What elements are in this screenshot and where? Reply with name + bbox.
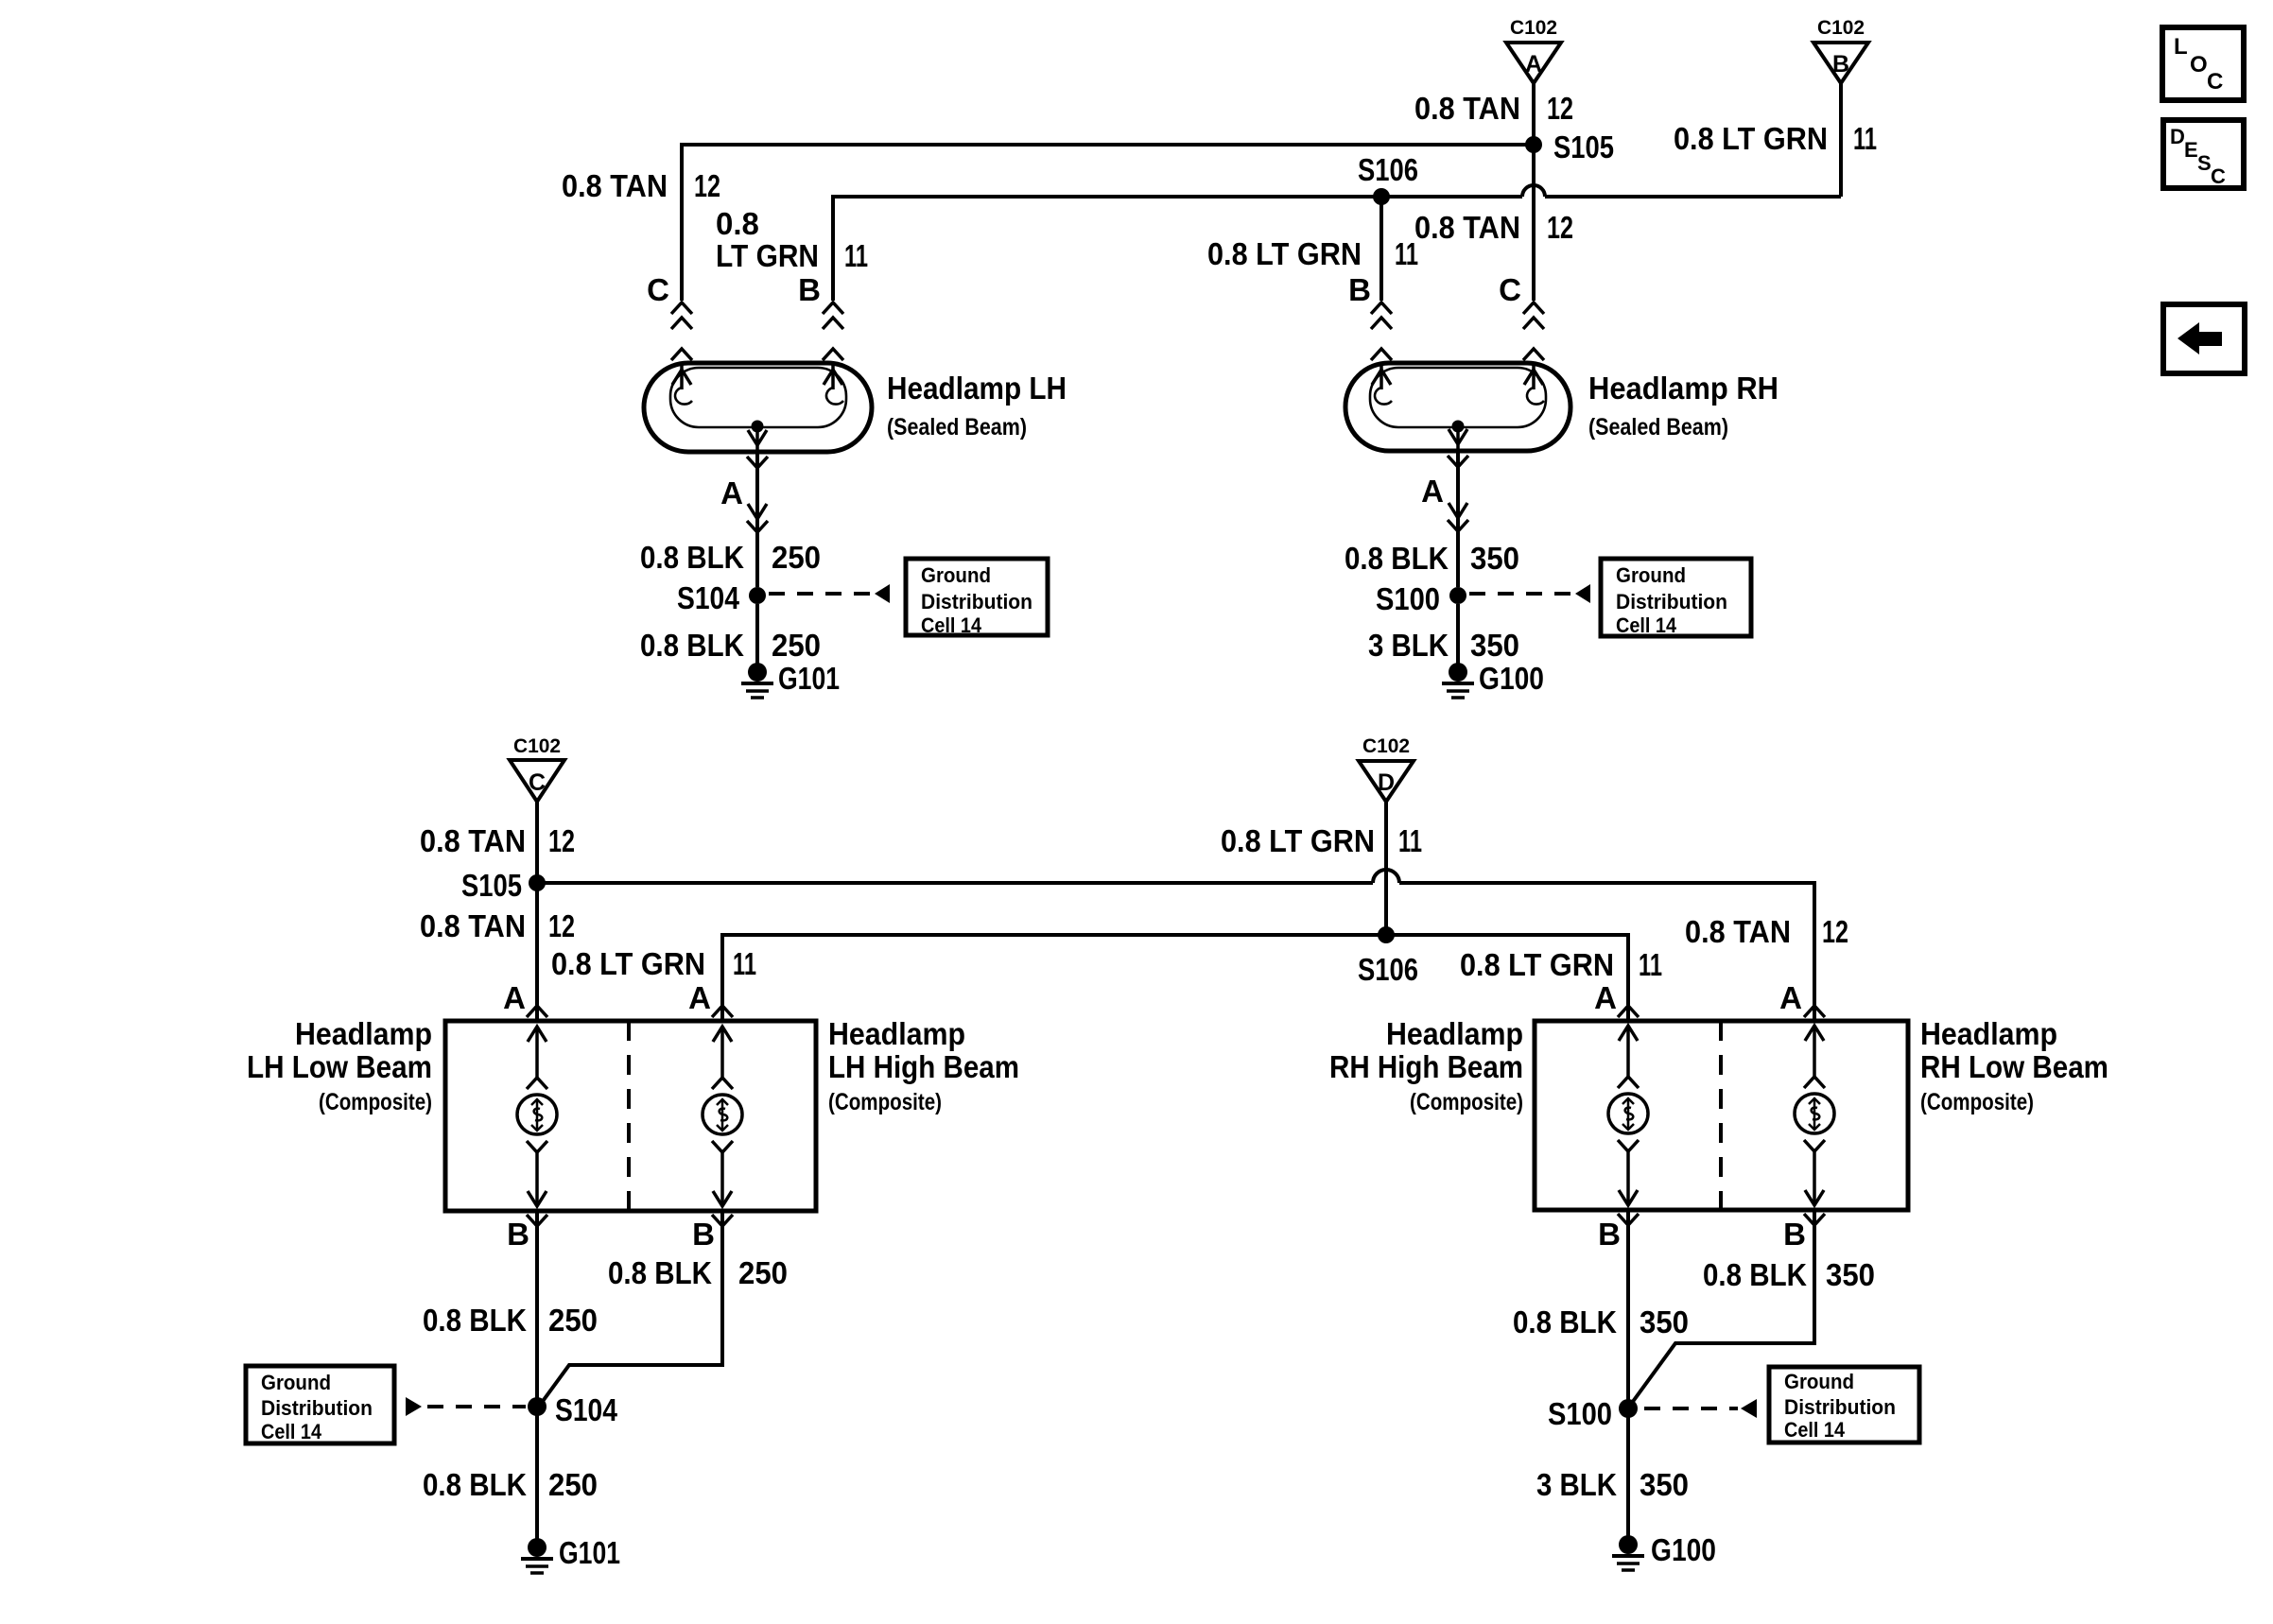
svg-text:C: C (1499, 272, 1521, 307)
svg-text:350: 350 (1640, 1467, 1689, 1502)
svg-text:250: 250 (738, 1255, 788, 1290)
wire C102-A to S105 (1532, 83, 1536, 145)
splice S105 (bottom section) (461, 868, 546, 903)
svg-text:RH High Beam: RH High Beam (1329, 1049, 1523, 1084)
svg-text:Headlamp: Headlamp (1920, 1016, 2057, 1051)
svg-text:S105: S105 (1553, 130, 1614, 164)
chevron below box RH high beam (1618, 1214, 1639, 1225)
svg-text:12: 12 (694, 168, 720, 203)
svg-text:11: 11 (733, 946, 756, 981)
svg-text:0.8 TAN: 0.8 TAN (420, 908, 526, 943)
label 0.8 / LT GRN 11 (LH pin B wire) (716, 206, 868, 273)
svg-text:11: 11 (1639, 947, 1662, 982)
svg-text:12: 12 (548, 823, 575, 858)
svg-text:S104: S104 (677, 580, 740, 615)
svg-text:C102: C102 (1362, 735, 1410, 757)
ground distribution cell 14 box (bottom right) (1769, 1367, 1919, 1443)
label 0.8 LT GRN 11 (wire D) (1221, 823, 1422, 858)
svg-text:350: 350 (1826, 1257, 1875, 1292)
connector chevron LH high beam pin A (712, 1006, 733, 1017)
back arrow box (2163, 304, 2245, 373)
svg-text:0.8 LT GRN: 0.8 LT GRN (1460, 947, 1614, 982)
svg-text:0.8 BLK: 0.8 BLK (608, 1255, 712, 1290)
label 0.8 TAN 12 (LH branch) (562, 168, 720, 203)
svg-text:(Sealed Beam): (Sealed Beam) (887, 414, 1027, 441)
svg-text:3 BLK: 3 BLK (1536, 1467, 1617, 1502)
svg-text:12: 12 (1547, 91, 1573, 126)
headlamp RH composite divider (1719, 1021, 1723, 1210)
connector chevrons LH pin C (671, 302, 692, 360)
svg-text:0.8 BLK: 0.8 BLK (423, 1467, 527, 1502)
wire S104 to G101 (755, 604, 759, 665)
svg-text:0.8 TAN: 0.8 TAN (1414, 210, 1520, 245)
wire LH high beam B to S104 (541, 1211, 722, 1404)
connector chevron RH low beam pin A (1804, 1006, 1825, 1017)
svg-text:Distribution: Distribution (261, 1396, 373, 1420)
ground G100 (top section) (1442, 661, 1544, 698)
headlamp LH inner element (670, 368, 846, 427)
label 0.8 LT GRN 11 (wire B) (1674, 121, 1877, 156)
svg-text:0.8 LT GRN: 0.8 LT GRN (551, 946, 705, 981)
svg-text:S105: S105 (461, 868, 522, 903)
headlamp LH pin B filament (824, 363, 843, 405)
connector C102 pin D (triangle) (1359, 735, 1414, 802)
svg-text:0.8 LT GRN: 0.8 LT GRN (1221, 823, 1375, 858)
svg-text:Headlamp RH: Headlamp RH (1588, 371, 1778, 406)
svg-text:Ground: Ground (921, 563, 991, 587)
splice S104 (bottom section) (528, 1392, 618, 1427)
label 0.8 LT GRN 11 (LH high beam pin A wire) (551, 946, 756, 981)
desc reference box (2163, 120, 2244, 188)
svg-text:250: 250 (772, 540, 821, 575)
svg-text:C: C (2207, 69, 2223, 95)
bulb LH high beam (703, 1027, 742, 1206)
connector chevrons LH pin B (823, 302, 843, 360)
headlamp RH sealed beam (outer shell) (1345, 363, 1570, 451)
chevron below box LH high beam (712, 1215, 733, 1226)
svg-text:RH Low Beam: RH Low Beam (1920, 1049, 2108, 1084)
headlamp LH pin A exit arrow (747, 426, 768, 468)
connector chevrons RH pin C (1523, 302, 1544, 360)
svg-text:Headlamp: Headlamp (828, 1016, 965, 1051)
svg-text:12: 12 (1547, 210, 1573, 245)
ground distribution cell 14 box (top right) (1601, 559, 1751, 637)
wire RH low beam B to S100 (1632, 1210, 1814, 1403)
dashed reference S104 to ground distribution (769, 584, 890, 603)
svg-text:0.8 BLK: 0.8 BLK (1345, 541, 1449, 576)
svg-text:B: B (692, 1217, 715, 1252)
svg-text:250: 250 (548, 1467, 598, 1502)
ground G101 (bottom section) (521, 1535, 620, 1573)
label Headlamp RH High Beam (Composite) (1329, 1016, 1523, 1115)
svg-text:Ground: Ground (261, 1371, 331, 1394)
wire S105 branch left (682, 145, 1534, 301)
svg-text:Distribution: Distribution (1784, 1395, 1896, 1419)
label 0.8 LT GRN 11 (RH high beam pin A wire) (1460, 947, 1662, 982)
svg-text:11: 11 (1853, 121, 1877, 156)
ground distribution cell 14 box (top left) (906, 559, 1048, 637)
label 0.8 BLK 350 (RH high beam ground wire) (1513, 1304, 1689, 1339)
label 0.8 TAN 12 (RH pin C wire) (1414, 210, 1573, 245)
svg-text:350: 350 (1470, 628, 1519, 663)
svg-text:A: A (720, 475, 743, 510)
svg-text:0.8 BLK: 0.8 BLK (423, 1303, 527, 1338)
svg-text:B: B (1783, 1217, 1806, 1252)
wire headlamp LH pin A down (755, 452, 759, 587)
svg-text:250: 250 (548, 1303, 598, 1338)
svg-text:LT GRN: LT GRN (716, 238, 819, 273)
svg-text:C: C (647, 272, 669, 307)
svg-text:L: L (2174, 34, 2188, 60)
svg-text:A: A (1525, 51, 1542, 78)
svg-text:0.8 TAN: 0.8 TAN (1685, 914, 1791, 949)
svg-text:350: 350 (1640, 1304, 1689, 1339)
svg-text:A: A (688, 980, 711, 1015)
label 0.8 BLK 250 (LH high beam ground wire) (608, 1255, 788, 1290)
svg-text:0.8 TAN: 0.8 TAN (420, 823, 526, 858)
svg-text:Cell 14: Cell 14 (261, 1420, 322, 1443)
bulb LH low beam (517, 1027, 557, 1206)
label 0.8 TAN 12 (RH low beam pin A wire) (1685, 914, 1848, 949)
connector C102 pin B (triangle) (1813, 17, 1868, 83)
svg-text:LH Low Beam: LH Low Beam (247, 1049, 432, 1084)
headlamp RH inner element (1370, 368, 1546, 427)
headlamp LH sealed beam (outer shell) (644, 363, 872, 452)
label 0.8 BLK 350 (above S100) (1345, 541, 1519, 576)
svg-text:O: O (2190, 52, 2208, 78)
svg-text:(Composite): (Composite) (828, 1089, 942, 1115)
label 3 BLK 350 (below S100) (1368, 628, 1519, 663)
splice S106 (bottom section) (1358, 926, 1418, 987)
label Headlamp RH (Sealed Beam) (1588, 371, 1778, 441)
dashed reference S100 to ground distribution (1469, 584, 1590, 603)
label Headlamp LH High Beam (Composite) (828, 1016, 1019, 1115)
svg-text:S100: S100 (1548, 1396, 1612, 1431)
svg-text:11: 11 (1398, 823, 1422, 858)
splice S105 (1525, 130, 1614, 164)
svg-text:(Composite): (Composite) (319, 1089, 432, 1115)
label 0.8 TAN 12 (below S105) (420, 908, 575, 943)
ground G101 (top section) (741, 661, 840, 698)
connector chevrons LH pin A (747, 504, 768, 532)
svg-text:Ground: Ground (1616, 563, 1686, 587)
svg-text:C102: C102 (513, 735, 561, 757)
label 0.8 BLK 250 (S104 to G101) (423, 1467, 598, 1502)
svg-text:Ground: Ground (1784, 1370, 1854, 1393)
svg-text:Headlamp LH: Headlamp LH (887, 371, 1067, 406)
svg-text:A: A (503, 980, 526, 1015)
splice S104 (top section) (677, 580, 766, 615)
wire C102-B down (1839, 83, 1843, 197)
svg-text:0.8 LT GRN: 0.8 LT GRN (1674, 121, 1828, 156)
chevron below box LH low beam (527, 1215, 547, 1226)
splice S100 (bottom section) (1548, 1396, 1638, 1431)
svg-text:B: B (1348, 272, 1371, 307)
svg-text:12: 12 (1822, 914, 1848, 949)
wire LH low beam B to S104 to G101 (535, 1211, 539, 1539)
wire S100 to G100 (1456, 604, 1460, 665)
label 0.8 TAN 12 (wire A) (1414, 91, 1573, 126)
label Headlamp LH (Sealed Beam) (887, 371, 1067, 441)
svg-text:S: S (2197, 151, 2212, 175)
svg-text:G100: G100 (1479, 661, 1544, 696)
svg-text:C102: C102 (1817, 17, 1865, 39)
svg-text:Headlamp: Headlamp (295, 1016, 432, 1051)
svg-text:G101: G101 (778, 661, 840, 696)
headlamp RH pin A exit arrow (1448, 426, 1468, 467)
svg-text:Distribution: Distribution (921, 590, 1032, 613)
svg-text:D: D (1378, 769, 1395, 796)
svg-text:0.8: 0.8 (716, 206, 759, 241)
connector C102 pin C (triangle) (510, 735, 564, 802)
headlamp RH common node (1452, 421, 1465, 433)
svg-text:G101: G101 (559, 1535, 620, 1570)
label 0.8 BLK 350 (RH low beam ground wire) (1703, 1257, 1875, 1292)
svg-text:0.8 BLK: 0.8 BLK (640, 540, 744, 575)
wire headlamp RH pin A down (1456, 451, 1460, 587)
svg-text:Distribution: Distribution (1616, 590, 1727, 613)
headlamp LH composite divider (627, 1021, 631, 1211)
label 0.8 TAN 12 (wire C) (420, 823, 575, 858)
wire S106 to headlamp RH pin B (1379, 197, 1383, 301)
svg-text:Cell 14: Cell 14 (921, 613, 982, 637)
wire S105 to headlamp RH pin C (1532, 145, 1536, 301)
svg-text:350: 350 (1470, 541, 1519, 576)
headlamp RH pin B filament (1372, 363, 1392, 405)
dashed reference ground distribution to S104 (406, 1397, 526, 1416)
label Headlamp RH Low Beam (Composite) (1920, 1016, 2108, 1115)
svg-text:(Composite): (Composite) (1920, 1089, 2034, 1115)
loc reference box (2162, 27, 2244, 100)
svg-text:C102: C102 (1510, 17, 1557, 39)
bulb RH low beam (1795, 1026, 1834, 1205)
svg-text:B: B (1598, 1217, 1621, 1252)
svg-text:250: 250 (772, 628, 821, 663)
svg-text:A: A (1421, 474, 1444, 509)
bulb RH high beam (1608, 1026, 1648, 1205)
connector C102 pin A (triangle) (1506, 17, 1561, 83)
connector chevrons RH pin B (1371, 302, 1392, 360)
svg-text:B: B (798, 272, 821, 307)
svg-text:Cell 14: Cell 14 (1784, 1418, 1846, 1442)
label 0.8 BLK 250 (above S104) (640, 540, 821, 575)
svg-text:0.8 TAN: 0.8 TAN (1414, 91, 1520, 126)
connector chevron LH low beam pin A (527, 1006, 547, 1017)
wire C102-C down to LH low beam (535, 802, 539, 1021)
wire B horizontal to S106 and LH pin B, hop over wire at 1622 (833, 185, 1841, 301)
headlamp LH pin C filament (672, 363, 692, 405)
label 0.8 LT GRN 11 (RH pin B wire) (1207, 236, 1418, 271)
label 3 BLK 350 (S100 to G100) (1536, 1467, 1689, 1502)
svg-text:A: A (1779, 980, 1802, 1015)
svg-text:G100: G100 (1651, 1532, 1716, 1567)
svg-text:12: 12 (548, 908, 575, 943)
label Headlamp LH Low Beam (Composite) (247, 1016, 432, 1115)
headlamp RH pin C filament (1524, 363, 1544, 405)
svg-text:C: C (529, 769, 546, 796)
svg-text:Cell 14: Cell 14 (1616, 613, 1677, 637)
svg-text:C: C (2211, 164, 2226, 188)
wire S105 branch right with hop, to RH low beam pin A (537, 870, 1814, 1021)
svg-text:D: D (2170, 125, 2185, 148)
svg-text:S104: S104 (555, 1392, 618, 1427)
connector chevron RH high beam pin A (1618, 1006, 1639, 1017)
svg-text:S100: S100 (1376, 581, 1440, 616)
dashed reference S100 to ground distribution (1644, 1399, 1757, 1418)
svg-text:Headlamp: Headlamp (1386, 1016, 1523, 1051)
svg-text:A: A (1594, 980, 1617, 1015)
label 0.8 BLK 250 (LH low beam ground wire) (423, 1303, 598, 1338)
svg-text:S106: S106 (1358, 952, 1418, 987)
svg-text:(Composite): (Composite) (1410, 1089, 1523, 1115)
chevron below box RH low beam (1804, 1214, 1825, 1225)
connector chevrons RH pin A (1448, 503, 1468, 531)
ground distribution cell 14 box (bottom left) (246, 1366, 394, 1443)
svg-text:S106: S106 (1358, 152, 1418, 187)
wire RH high beam B to S100 to G100 (1626, 1210, 1630, 1536)
ground G100 (bottom section) (1612, 1532, 1716, 1570)
svg-text:11: 11 (844, 238, 868, 273)
label 0.8 BLK 250 (below S104) (640, 628, 821, 663)
splice S106 (1358, 152, 1418, 205)
wire S106 horizontal to LH high beam and RH high beam pins A (722, 935, 1628, 1021)
svg-text:0.8 BLK: 0.8 BLK (1513, 1304, 1617, 1339)
svg-text:B: B (1832, 51, 1849, 78)
splice S100 (top section) (1376, 581, 1466, 616)
svg-text:LH High Beam: LH High Beam (828, 1049, 1019, 1084)
svg-text:E: E (2184, 138, 2198, 162)
wire C102-D to S106 (1384, 802, 1388, 935)
svg-text:B: B (507, 1217, 529, 1252)
headlamp LH common node (752, 421, 764, 433)
svg-text:0.8 LT GRN: 0.8 LT GRN (1207, 236, 1362, 271)
headlamp RH composite box (1535, 1021, 1908, 1210)
svg-text:(Sealed Beam): (Sealed Beam) (1588, 414, 1728, 441)
headlamp LH composite box (445, 1021, 816, 1211)
svg-text:0.8 BLK: 0.8 BLK (1703, 1257, 1807, 1292)
svg-text:0.8 TAN: 0.8 TAN (562, 168, 668, 203)
svg-text:3 BLK: 3 BLK (1368, 628, 1449, 663)
svg-text:0.8 BLK: 0.8 BLK (640, 628, 744, 663)
